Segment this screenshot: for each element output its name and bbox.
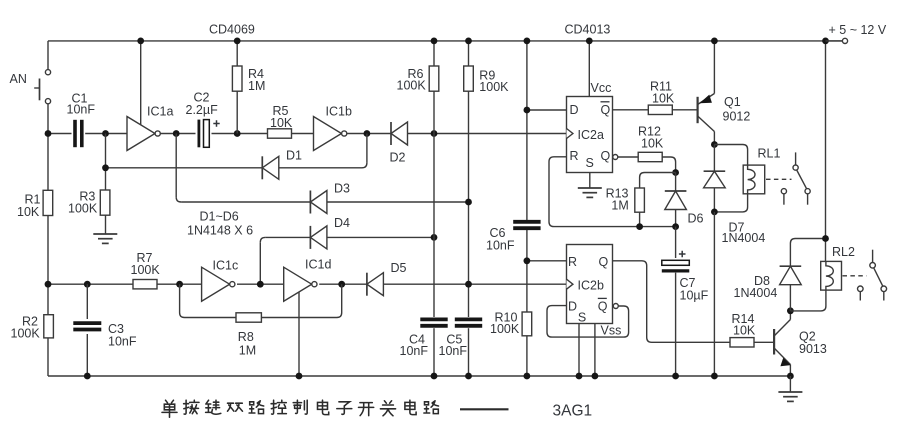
wire Vcc stub IC2a [588,41,590,97]
wire D1 feedback row [106,134,367,168]
wire C7 column bottom to rail [675,273,677,376]
svg-text:R8: R8 [238,330,254,344]
wire IC1d Vss stub to bottom rail [298,292,300,376]
caption char 按 [184,400,199,414]
wire Q1 collector column to RL1 top node [713,132,715,145]
node junction D1 row / R3 column [102,164,109,171]
node junction C6 bottom / IC2b R [524,257,531,264]
svg-text:CD4013: CD4013 [565,22,611,36]
wire R14 to Q2 base [754,341,774,343]
svg-text:D3: D3 [334,182,350,196]
node junction IC1d output / R8 return [338,281,345,288]
wire IC1a output down to D3 row [176,134,310,203]
diode D6 [665,191,704,226]
wire supply terminal stub [826,40,843,42]
wire right rail down to RL2 [825,41,827,262]
svg-text:10nF: 10nF [486,238,515,252]
resistor R6 [397,66,439,93]
wire Q2 emitter to bottom rail [789,365,791,377]
node junction main row left column [45,130,52,137]
svg-text:Vcc: Vcc [591,81,612,95]
node junction R9 on rail [465,38,472,45]
node junction R6 on rail [431,38,438,45]
op-amp gate IC1d [284,258,332,302]
node junction Vss bottom rail [592,373,599,380]
caption char 键 [206,400,221,414]
svg-text:9013: 9013 [799,342,827,356]
svg-text:10K: 10K [17,205,40,219]
node junction C4 bottom rail [431,373,438,380]
wire C4 column main row to C4 [433,134,435,318]
svg-text:Q: Q [601,103,611,117]
node junction D3 row / R9 column [465,199,472,206]
pin label D IC2b [568,299,577,313]
diode D5 [367,261,407,296]
wire IC2b Vss stub [594,324,596,377]
ground R3 [93,234,117,243]
resistor R14 [730,312,756,347]
node junction right rail on top rail [822,38,829,45]
node junction D6/C7 on loop [672,223,679,230]
node junction Vcc on rail [586,38,593,45]
wire C5 column to bottom rail [468,328,470,376]
wire D7 column down to bottom rail [713,212,715,376]
svg-text:R: R [568,255,577,269]
wire R3 column main row to ground [105,134,107,234]
svg-text:10K: 10K [733,324,756,338]
caption char 电 [318,400,329,414]
op-amp gate IC1c [202,259,239,302]
node junction D input tee [524,107,531,114]
label Vcc [591,81,612,95]
resistor R2 [11,315,54,341]
svg-text:10µF: 10µF [680,289,709,303]
wire Q IC2a bubble to R12 [618,156,638,158]
svg-text:D: D [568,299,577,313]
resistor R10 [490,311,532,337]
svg-text:D6: D6 [688,212,704,226]
svg-text:+ 5 ~ 12 V: + 5 ~ 12 V [829,23,887,37]
svg-text:1N4004: 1N4004 [734,286,778,300]
node junction C3 bottom rail [84,373,91,380]
diode D4 [310,216,350,249]
resistor R4 [232,66,265,93]
transistor Q1 9012 PNP [698,94,751,132]
pin label Qbar IC2a [601,102,611,117]
wire R8 feedback loop [180,284,342,317]
resistor R1 [17,190,53,219]
relay coil RL1 [743,146,780,194]
pin label S IC2a [586,156,594,170]
diode D3 [310,182,350,214]
svg-text:1M: 1M [611,199,628,213]
node junction R7/IC1c/R8 feedback [176,281,183,288]
diode D7 [704,171,766,245]
wire D3 row to R9 column [327,201,469,203]
wire D6 anode to loop [675,210,677,227]
wire IC2b S stub [578,324,580,377]
node junction R12/R13/D6 [672,169,679,176]
wire D input tee from C6 column [527,109,567,111]
caption char 关 [380,401,395,416]
clock pin IC2b [567,279,573,289]
dashed link RL1 [766,178,792,180]
relay coil RL2 [821,245,855,290]
svg-text:IC2a: IC2a [578,128,604,142]
wire main row: R5 to IC1b input [292,133,314,135]
pin label Q IC2b [599,255,609,269]
wire D8 top branch [790,239,825,267]
svg-text:R: R [570,149,579,163]
svg-text:10nF: 10nF [400,344,429,358]
svg-text:Q: Q [601,149,611,163]
svg-text:100K: 100K [397,79,427,93]
wire C7 column top [675,227,677,258]
wire Q-bar IC2a to R11 [613,109,649,111]
svg-text:D4: D4 [334,216,350,230]
svg-text:1M: 1M [248,79,265,93]
wire R12 to node corner [662,157,676,173]
wire IC2b D/Qbar loop [547,306,629,338]
wire C3 column [86,284,88,376]
svg-text:IC1b: IC1b [326,105,352,119]
pin label D IC2a [570,103,579,117]
capacitor C5 [439,319,483,358]
resistor R13 [606,186,645,212]
svg-text:IC1a: IC1a [147,105,173,119]
bubble Qbar IC2b [613,304,618,309]
label Vss [601,324,622,338]
resistor R9 [464,66,509,94]
node junction R10 bottom rail [524,373,531,380]
label +5~12V [829,23,887,37]
svg-text:10K: 10K [652,91,675,105]
resistor R8 [236,313,261,358]
wire D6 cathode stub [675,173,677,192]
wire main row: C2 to R5 [212,133,268,135]
resistor R7 [131,251,161,289]
wire main row: D2 to IC2a clock input [408,133,567,135]
capacitor C3 [73,322,137,348]
caption char 单 [162,400,177,417]
wire RL1 top branch [714,145,747,166]
node junction D4 row / C4 column [431,234,438,241]
wire main row: IC1a output to C2 [160,133,195,135]
clock pin IC2a [567,129,573,139]
wire C6 column rail down to C6 top plate [526,41,528,222]
node junction IC1a output [173,130,180,137]
node junction R6/C4 column on main row [431,130,438,137]
node junction C3 top [84,281,91,288]
ground Q2 [778,392,802,401]
resistor R11 [648,80,675,115]
pin label S IC2b [578,311,586,325]
label CD4013 [565,22,611,36]
wire main row: IC1b output to D2 [347,133,391,135]
bubble Q IC2a [613,155,618,160]
wire C6 bottom to R10 to bottom rail [526,228,528,376]
wire RL1 bottom branch [714,194,747,212]
caption char 双 [228,403,243,411]
node junction S bottom rail [576,373,583,380]
wire left column (button/R1/R2 column) [47,41,49,376]
wire RL2 bottom branch [790,290,826,311]
wire R6 column rail to main row [433,41,435,134]
svg-text:100K: 100K [68,202,98,216]
wire row2: D5 to IC2b clock input [383,283,566,285]
caption char 开 [359,403,374,416]
svg-text:D5: D5 [391,261,407,275]
diode D8 [734,266,802,300]
svg-text:2.2µF: 2.2µF [186,103,219,117]
resistor R5 [268,104,293,138]
node junction C1/R3/IC1a input [102,130,109,137]
caption char 制 [293,400,307,414]
node junction C7 bottom rail [672,373,679,380]
node junction IC1b output / D1 feedback [364,130,371,137]
svg-text:AN: AN [10,72,27,86]
switch SW1 of RL1 [781,152,810,204]
svg-text:100K: 100K [490,322,520,336]
label CD4069 [209,22,255,36]
svg-text:RL1: RL1 [758,146,781,160]
svg-text:RL2: RL2 [832,245,855,259]
node junction D7 anode / RL1 bottom [711,209,718,216]
capacitor C1 [67,92,96,148]
wire row2: IC1d output to D5 [319,283,367,285]
ground IC2a S [578,188,602,197]
node junction Q1 emitter on rail [711,38,718,45]
wire IC1a Vdd stub from top rail [140,41,142,125]
node junction IC1c output [257,281,264,288]
node junction Q1 collector / D7 / RL1 [711,141,718,148]
pin label R IC2a [570,149,579,163]
wire R4 column top rail to main row [236,41,238,134]
caption char 电 [405,400,416,414]
wire IC2a S ground stub [589,173,591,188]
resistor R12 [638,125,664,162]
wire bottom ground rail [48,375,790,377]
node junction R4 on rail [234,38,241,45]
flip-flop IC2b box [567,245,613,324]
node junction R13 on loop [636,223,643,230]
svg-text:10K: 10K [641,137,664,151]
svg-text:Q: Q [598,299,608,313]
svg-text:10K: 10K [270,116,293,130]
wire main row: button node to C1 [48,133,72,135]
pin label R IC2b [568,255,577,269]
wire IC2a R loop [549,157,676,227]
capacitor C4 [400,319,448,358]
svg-text:10nF: 10nF [108,334,137,348]
op-amp gate IC1b [314,105,352,151]
svg-text:Vss: Vss [601,324,622,338]
wire D4 row to R6/C4 column [327,236,434,238]
capacitor C7 electrolytic [662,251,709,303]
caption dash [460,408,509,410]
svg-text:100K: 100K [131,263,161,277]
caption 3AG1 [553,402,593,419]
wire D8 column [789,285,791,311]
dashed link RL2 [843,275,867,277]
svg-text:3AG1: 3AG1 [553,402,593,419]
wire IC2b R pin to C6 column [527,260,567,262]
caption char 路 [424,401,439,414]
wire Q1 emitter column from rail [713,41,715,94]
wire Q2 collector column [789,311,791,320]
svg-text:S: S [578,311,586,325]
node junction D7 column bottom rail [711,373,718,380]
caption char 子 [337,402,352,415]
svg-text:9012: 9012 [723,109,751,123]
pushbutton AN [10,70,51,104]
node junction right rail / D8 branch [822,235,829,242]
diode D1 [262,149,302,180]
svg-text:D2: D2 [390,151,406,165]
svg-text:1M: 1M [239,344,256,358]
node junction row2 left column [45,281,52,288]
svg-text:IC2b: IC2b [578,279,604,293]
svg-text:10nF: 10nF [67,103,96,117]
wire main row: C1 to IC1a input [85,133,127,135]
caption char 控 [271,400,286,414]
node junction IC1a Vdd on rail [137,38,144,45]
op-amp gate IC1a [127,105,173,151]
terminal +V open circle [842,38,847,43]
caption char 路 [249,401,264,414]
node junction C6 column on rail [524,38,531,45]
pin label Qbar IC2b [598,298,608,313]
svg-text:IC1d: IC1d [305,258,331,272]
svg-text:CD4069: CD4069 [209,22,255,36]
node junction row2 / R9-C5 column [465,281,472,288]
flip-flop IC2a box [567,97,613,173]
diode D2 [390,122,408,165]
wire R11 to Q1 base [672,109,697,111]
switch SW2 of RL2 [858,250,887,301]
node junction Q2 collector / D8 / RL2 [787,307,794,314]
wire D7 column between [713,145,715,212]
svg-text:D1~D6: D1~D6 [200,210,239,224]
capacitor C2 electrolytic [186,91,220,148]
svg-text:100K: 100K [479,80,509,94]
wire row2: IC1c output to IC1d input [237,283,284,285]
svg-text:D1: D1 [286,149,302,163]
transistor Q2 9013 NPN [774,320,827,367]
svg-text:100K: 100K [11,327,41,341]
svg-text:1N4148 X 6: 1N4148 X 6 [187,223,253,237]
svg-text:IC1c: IC1c [213,259,239,273]
wire R9 column rail down to C5 [468,41,470,317]
node junction IC1d Vss bottom rail [296,373,303,380]
node junction R4 bottom [234,130,241,137]
svg-text:D: D [570,103,579,117]
svg-text:Q: Q [599,255,609,269]
label IC2b [578,279,604,293]
wire R13 top jog [640,173,676,189]
pin label Q IC2a [601,149,611,163]
svg-text:1N4004: 1N4004 [722,231,766,245]
wire R13 bottom to loop [639,212,641,226]
node junction C5 bottom rail [465,373,472,380]
node junction Q2 emitter bottom rail [787,373,794,380]
capacitor C6 [486,222,541,253]
label IC2a [578,128,604,142]
resistor R3 [68,190,110,216]
wire IC2b Q to Q2 base row [613,261,731,343]
svg-text:S: S [586,156,594,170]
wire row2: R7 to IC1c input [157,283,202,285]
svg-text:10nF: 10nF [439,344,468,358]
label D1-D6 group [187,210,253,238]
wire C4 column to bottom rail [433,328,435,376]
svg-text:Q1: Q1 [724,95,741,109]
wire row2: left column to R7 [48,283,133,285]
wire top supply rail [48,40,845,42]
wire IC1c output up to D4 row [260,237,310,284]
wire Q2 ground stub [789,376,791,392]
